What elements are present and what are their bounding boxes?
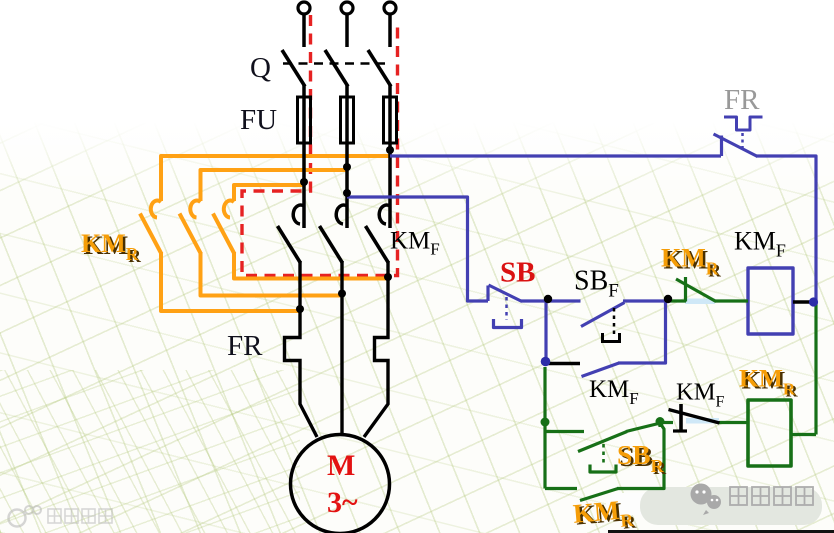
- svg-text:KMF: KMF: [734, 227, 786, 261]
- svg-text:KMF: KMF: [589, 376, 639, 408]
- svg-text:SBF: SBF: [574, 266, 619, 302]
- svg-text:SB: SB: [500, 257, 535, 289]
- svg-text:FU: FU: [240, 104, 277, 136]
- svg-text:KMF: KMF: [676, 379, 724, 411]
- svg-text:FR: FR: [227, 330, 263, 362]
- svg-text:M: M: [327, 449, 355, 482]
- svg-text:FR: FR: [724, 84, 760, 116]
- svg-text:3~: 3~: [327, 486, 358, 519]
- svg-text:KMF: KMF: [390, 228, 440, 259]
- svg-text:Q: Q: [250, 52, 271, 84]
